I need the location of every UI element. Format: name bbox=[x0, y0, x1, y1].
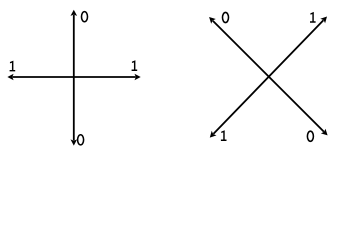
wire: horizontal shaft bbox=[13, 76, 136, 78]
arrowhead down bbox=[71, 139, 78, 145]
arrowhead top-right bbox=[320, 17, 327, 24]
label 1 (top-right, right figure) bbox=[310, 12, 316, 23]
arrowhead bottom-left bbox=[210, 131, 217, 138]
label 1 (bottom-left, right figure) bbox=[221, 130, 227, 141]
label 0 (bottom-right, right figure) bbox=[307, 131, 313, 141]
wire: vertical shaft bbox=[73, 15, 75, 140]
label 1 (right, left figure) bbox=[132, 60, 138, 71]
arrowhead left bbox=[7, 74, 13, 81]
arrowhead right bbox=[135, 74, 141, 81]
label 0 (top, left figure) bbox=[82, 12, 88, 22]
label 0 (top-left, right figure) bbox=[223, 12, 229, 22]
arrowhead top-left bbox=[209, 17, 216, 24]
wire: diagonal TL-BR shaft bbox=[213, 21, 324, 132]
arrowhead bottom-right bbox=[321, 129, 328, 136]
label 0 (bottom, left figure) bbox=[78, 135, 84, 145]
label 1 (left, left figure) bbox=[10, 61, 16, 72]
wire: diagonal BL-TR shaft bbox=[213, 20, 323, 134]
arrowhead up bbox=[71, 10, 78, 16]
